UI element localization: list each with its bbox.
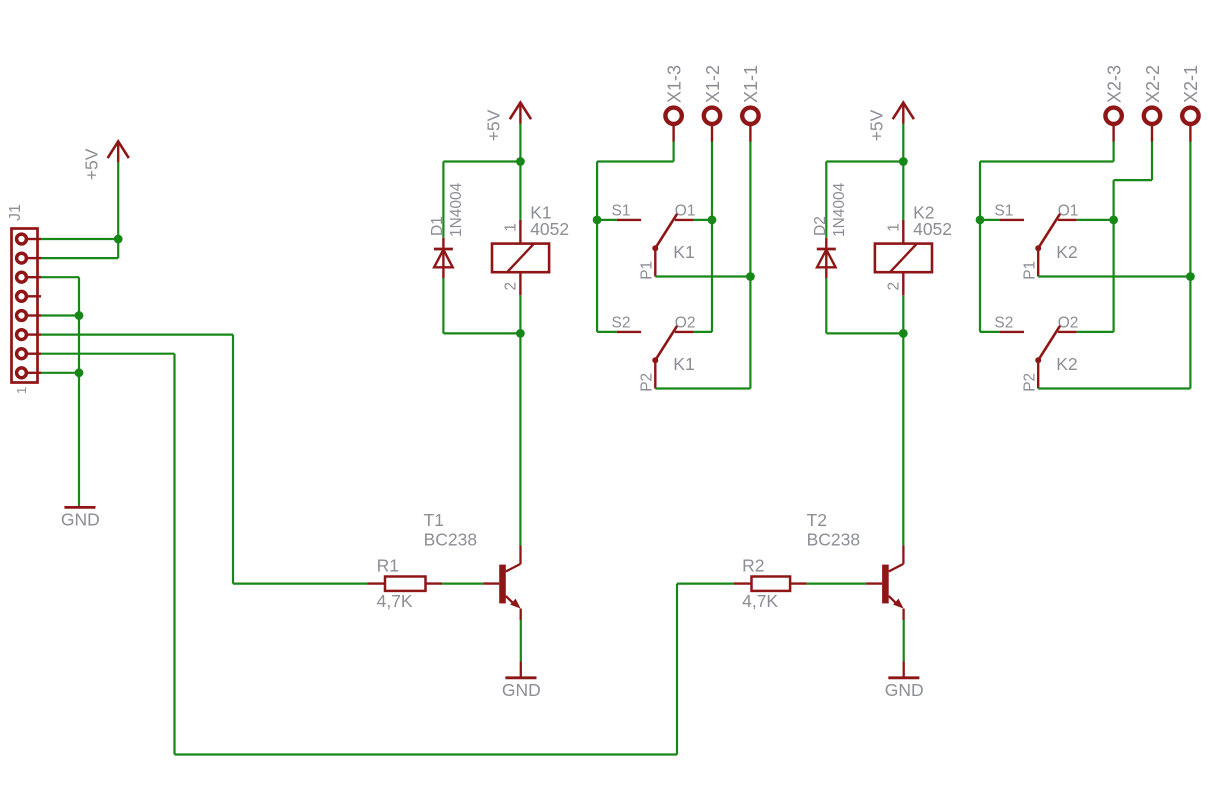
svg-text:T2: T2 [807, 510, 827, 530]
svg-text:4,7K: 4,7K [377, 591, 413, 611]
svg-text:2: 2 [886, 282, 903, 291]
svg-text:1N4004: 1N4004 [448, 182, 465, 237]
svg-text:O2: O2 [1058, 314, 1079, 331]
svg-text:O1: O1 [1058, 202, 1079, 219]
svg-text:R1: R1 [377, 556, 399, 576]
svg-text:BC238: BC238 [807, 530, 861, 550]
svg-text:X2-1: X2-1 [1181, 65, 1201, 103]
svg-text:D2: D2 [812, 216, 829, 236]
svg-text:P2: P2 [639, 373, 656, 392]
svg-text:P1: P1 [639, 261, 656, 280]
svg-text:4,7K: 4,7K [742, 591, 778, 611]
svg-text:K2: K2 [1056, 242, 1077, 262]
svg-text:1: 1 [886, 223, 903, 232]
svg-text:BC238: BC238 [424, 530, 478, 550]
svg-text:P1: P1 [1021, 261, 1038, 280]
svg-text:X1-3: X1-3 [664, 65, 684, 103]
svg-text:GND: GND [885, 680, 924, 700]
svg-text:K2: K2 [1056, 354, 1077, 374]
svg-text:S2: S2 [612, 314, 631, 331]
svg-text:O2: O2 [675, 314, 696, 331]
svg-text:X2-2: X2-2 [1143, 65, 1163, 103]
svg-text:O1: O1 [675, 202, 696, 219]
svg-text:+5V: +5V [81, 148, 101, 180]
svg-text:S1: S1 [612, 202, 631, 219]
svg-text:1: 1 [503, 223, 520, 232]
svg-text:J1: J1 [7, 204, 24, 221]
svg-text:X1-1: X1-1 [741, 65, 761, 103]
svg-text:X1-2: X1-2 [703, 65, 723, 103]
svg-text:S2: S2 [994, 314, 1013, 331]
svg-text:T1: T1 [424, 510, 444, 530]
svg-text:+5V: +5V [484, 109, 504, 141]
svg-text:K1: K1 [673, 242, 694, 262]
svg-text:+5V: +5V [867, 109, 887, 141]
svg-text:4052: 4052 [530, 219, 569, 239]
svg-text:R2: R2 [742, 556, 764, 576]
svg-text:K1: K1 [673, 354, 694, 374]
svg-text:D1: D1 [429, 216, 446, 236]
svg-text:GND: GND [502, 680, 541, 700]
svg-text:S1: S1 [994, 202, 1013, 219]
svg-text:1N4004: 1N4004 [831, 182, 848, 237]
svg-text:GND: GND [61, 510, 100, 530]
svg-text:1: 1 [14, 387, 29, 394]
svg-text:P2: P2 [1021, 373, 1038, 392]
svg-text:4052: 4052 [913, 219, 952, 239]
svg-text:X2-3: X2-3 [1104, 65, 1124, 103]
svg-text:2: 2 [503, 282, 520, 291]
